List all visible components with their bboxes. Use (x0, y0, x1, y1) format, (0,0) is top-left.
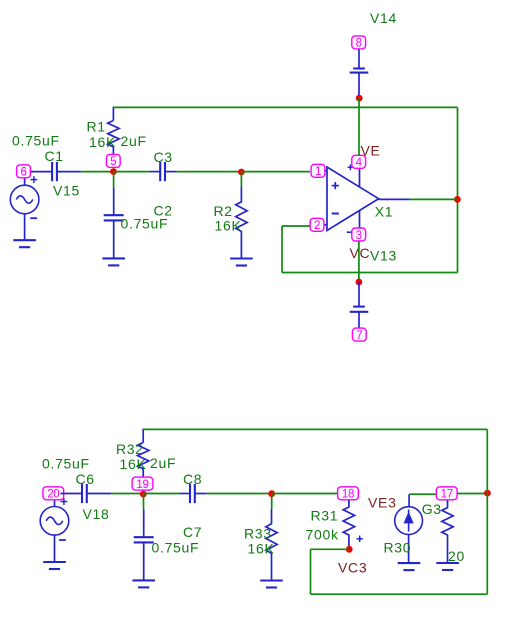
label C7 (183, 524, 202, 540)
svg-text:VC: VC (350, 245, 371, 261)
wire (feedback top left corner, bottom circuit) (142, 429, 144, 443)
node 8 (352, 36, 366, 50)
wire feedback to - input (282, 225, 310, 227)
ground (V15) (13, 240, 36, 247)
svg-text:R31: R31 (311, 507, 339, 523)
svg-text:5: 5 (110, 156, 116, 168)
wire node 19 down to C7 (143, 494, 145, 510)
capacitor C2 (104, 188, 124, 259)
label VE (361, 142, 381, 158)
wire to op-amp + input (241, 171, 310, 173)
label 16K (R1 value) (89, 134, 116, 150)
wire VC3 loop bottom (311, 593, 488, 595)
wire C8 to R33 junction (207, 493, 272, 495)
junction C8/R33 (268, 490, 275, 497)
svg-text:C7: C7 (183, 524, 202, 540)
wire VC3 loop to R31 (311, 548, 350, 550)
svg-text:0.75uF: 0.75uF (42, 456, 90, 472)
svg-text:2uF: 2uF (121, 133, 147, 149)
svg-text:C1: C1 (45, 148, 64, 164)
label 2uF (121, 133, 147, 149)
battery V14 (350, 49, 369, 98)
svg-text:R30: R30 (384, 539, 412, 555)
label R1 (87, 118, 106, 134)
junction output (454, 196, 461, 203)
ground (R30) (436, 563, 459, 570)
junction C3/R2 (238, 169, 245, 176)
label 2uF (bottom) (150, 455, 176, 471)
label X1 (375, 204, 394, 220)
svg-text:V15: V15 (53, 182, 80, 198)
label V14 (370, 10, 397, 26)
svg-text:2: 2 (314, 220, 320, 232)
wire node 5 to C3 (114, 171, 150, 173)
label C3 (154, 149, 173, 165)
op-amp output stub (379, 198, 410, 200)
label C2 (154, 203, 173, 219)
label 16K (R33 value) (248, 541, 275, 557)
node 6 (17, 165, 31, 179)
node 20 (43, 487, 64, 501)
node 17 (436, 487, 457, 501)
svg-text:8: 8 (356, 38, 362, 50)
capacitor C7 (134, 510, 154, 581)
current source G3 (395, 507, 423, 563)
svg-text:G3: G3 (422, 501, 442, 517)
label R31 (311, 507, 339, 523)
resistor R31 (343, 500, 354, 549)
label 16K (R2 value) (215, 218, 242, 234)
junction output (bottom) (484, 490, 491, 497)
svg-text:16K: 16K (248, 541, 275, 557)
svg-text:C6: C6 (76, 471, 95, 487)
label VC (350, 245, 371, 261)
label 700k (R31 value) (306, 527, 339, 543)
wire feedback top (113, 106, 457, 108)
svg-text:1: 1 (315, 166, 321, 178)
voltage source V15 (10, 178, 39, 240)
node 7 (352, 328, 366, 342)
wire C3 to R2 junction (177, 171, 242, 173)
svg-text:0.75uF: 0.75uF (152, 540, 200, 556)
label G3 (422, 501, 442, 517)
svg-text:C8: C8 (183, 471, 202, 487)
label V15 (53, 182, 80, 198)
wire feedback left vertical (281, 226, 283, 273)
svg-text:20: 20 (448, 548, 465, 564)
op-amp + input stub (318, 170, 327, 172)
svg-text:VE3: VE3 (368, 495, 397, 511)
svg-text:VC3: VC3 (338, 559, 367, 575)
svg-text:700k: 700k (306, 527, 339, 543)
svg-text:4: 4 (356, 157, 363, 169)
svg-text:X1: X1 (375, 204, 394, 220)
junction node 19 (140, 491, 147, 498)
polarity marker - (V18) (59, 539, 66, 541)
resistor R2 (236, 187, 247, 259)
op-amp - input marker (332, 213, 339, 215)
op-amp power pin stub (bottom, pin 3) (359, 210, 361, 228)
wire C6 to node 19 (111, 493, 143, 495)
wire output (409, 198, 457, 200)
svg-text:3: 3 (356, 230, 362, 242)
svg-text:18: 18 (342, 489, 354, 501)
node 1 (pin +) (311, 164, 325, 178)
label V13 (370, 247, 397, 263)
capacitor C3 (150, 162, 177, 181)
label C1 (45, 148, 64, 164)
ground (C7) (132, 580, 155, 587)
voltage source V18 (40, 500, 69, 562)
wire V14 to VE pin (358, 98, 360, 155)
label C6 (76, 471, 95, 487)
capacitor C8 (180, 484, 207, 503)
label R30 (384, 539, 412, 555)
junction V13 pin (356, 279, 363, 286)
wire VC pin to V13 (358, 241, 360, 282)
label R32 (116, 441, 144, 457)
wire junction down to R33 (271, 494, 273, 509)
resistor R30 (442, 500, 453, 563)
svg-text:R32: R32 (116, 441, 144, 457)
svg-text:17: 17 (441, 489, 453, 501)
label C8 (183, 471, 202, 487)
svg-text:0.75uF: 0.75uF (121, 216, 169, 232)
ground (V18) (43, 562, 66, 569)
label V18 (83, 506, 110, 522)
polarity marker + (V18) (61, 498, 68, 505)
label 20 (R30 value) (448, 548, 465, 564)
label 0.75uF (C2 value) (121, 216, 169, 232)
wire junction down to R2 (240, 172, 242, 187)
node 3 (VC pin) (352, 228, 366, 242)
polarity marker + (VC3) (357, 536, 363, 542)
svg-text:VE: VE (361, 142, 381, 158)
battery V13 (350, 282, 369, 328)
junction VC3 (346, 546, 353, 553)
junction node 5 (110, 168, 117, 175)
svg-text:16K: 16K (215, 218, 242, 234)
ground (R33) (260, 581, 283, 588)
wire right vertical (bottom circuit) (486, 429, 488, 594)
wire to node 18 (272, 493, 338, 495)
label VC3 (338, 559, 367, 575)
label 0.75uF (C6 value) (42, 456, 90, 472)
label VE3 (368, 495, 397, 511)
wire node 19 to C8 (143, 493, 179, 495)
svg-text:19: 19 (136, 479, 148, 491)
label 16K (R32 value) (120, 456, 147, 472)
label 0.75uF (C1 value) (12, 133, 60, 149)
label R2 (214, 203, 233, 219)
resistor R32 (138, 443, 149, 478)
op-amp + input marker (332, 182, 339, 189)
svg-text:6: 6 (20, 167, 26, 179)
resistor R1 (108, 121, 119, 155)
svg-text:R1: R1 (87, 118, 106, 134)
svg-text:0.75uF: 0.75uF (12, 133, 60, 149)
wire C1 to node 5 (81, 171, 113, 173)
node 5 (106, 154, 120, 168)
ground (C2) (102, 258, 125, 265)
node 4 (VE pin) (352, 155, 366, 169)
wire feedback bottom (282, 272, 458, 274)
junction V14 pin (356, 95, 363, 102)
wire feedback top (bottom circuit) (143, 428, 487, 430)
node 18 (338, 487, 359, 501)
wire node 5 down to C2 (113, 172, 115, 188)
wire VC3 loop left vertical (310, 549, 312, 594)
polarity marker - (V15) (30, 217, 37, 219)
op-amp - input stub (317, 224, 327, 226)
wire node 17 to output junction (458, 493, 488, 495)
svg-text:20: 20 (47, 489, 59, 501)
capacitor C1 (31, 162, 82, 181)
pin marker + (VE pin) (348, 164, 354, 170)
polarity marker + (V15) (31, 176, 38, 183)
ground (G3) (398, 563, 421, 570)
current source G3 lead (408, 494, 410, 507)
svg-text:7: 7 (356, 330, 362, 342)
wire G3 to node 17 (409, 493, 436, 495)
svg-text:V14: V14 (370, 10, 397, 26)
label R33 (244, 526, 272, 542)
wire feedback right vertical (457, 107, 459, 272)
svg-text:V18: V18 (83, 506, 110, 522)
capacitor C6 (61, 484, 112, 503)
svg-text:16K: 16K (120, 456, 147, 472)
svg-text:2uF: 2uF (150, 455, 176, 471)
op-amp power pin stub (top, pin 4) (359, 169, 361, 188)
svg-text:R2: R2 (214, 203, 233, 219)
label 0.75uF (C7 value) (152, 540, 200, 556)
node 2 (pin -) (310, 218, 324, 232)
ground (R2) (230, 259, 253, 266)
svg-text:16K: 16K (89, 134, 116, 150)
svg-text:V13: V13 (370, 247, 397, 263)
pin marker - (VC pin) (347, 231, 353, 233)
svg-text:C3: C3 (154, 149, 173, 165)
wire (feedback top left corner) (112, 107, 114, 121)
node 19 (132, 477, 153, 491)
svg-text:R33: R33 (244, 526, 272, 542)
resistor R33 (266, 509, 277, 581)
op-amp X1 (327, 167, 379, 231)
